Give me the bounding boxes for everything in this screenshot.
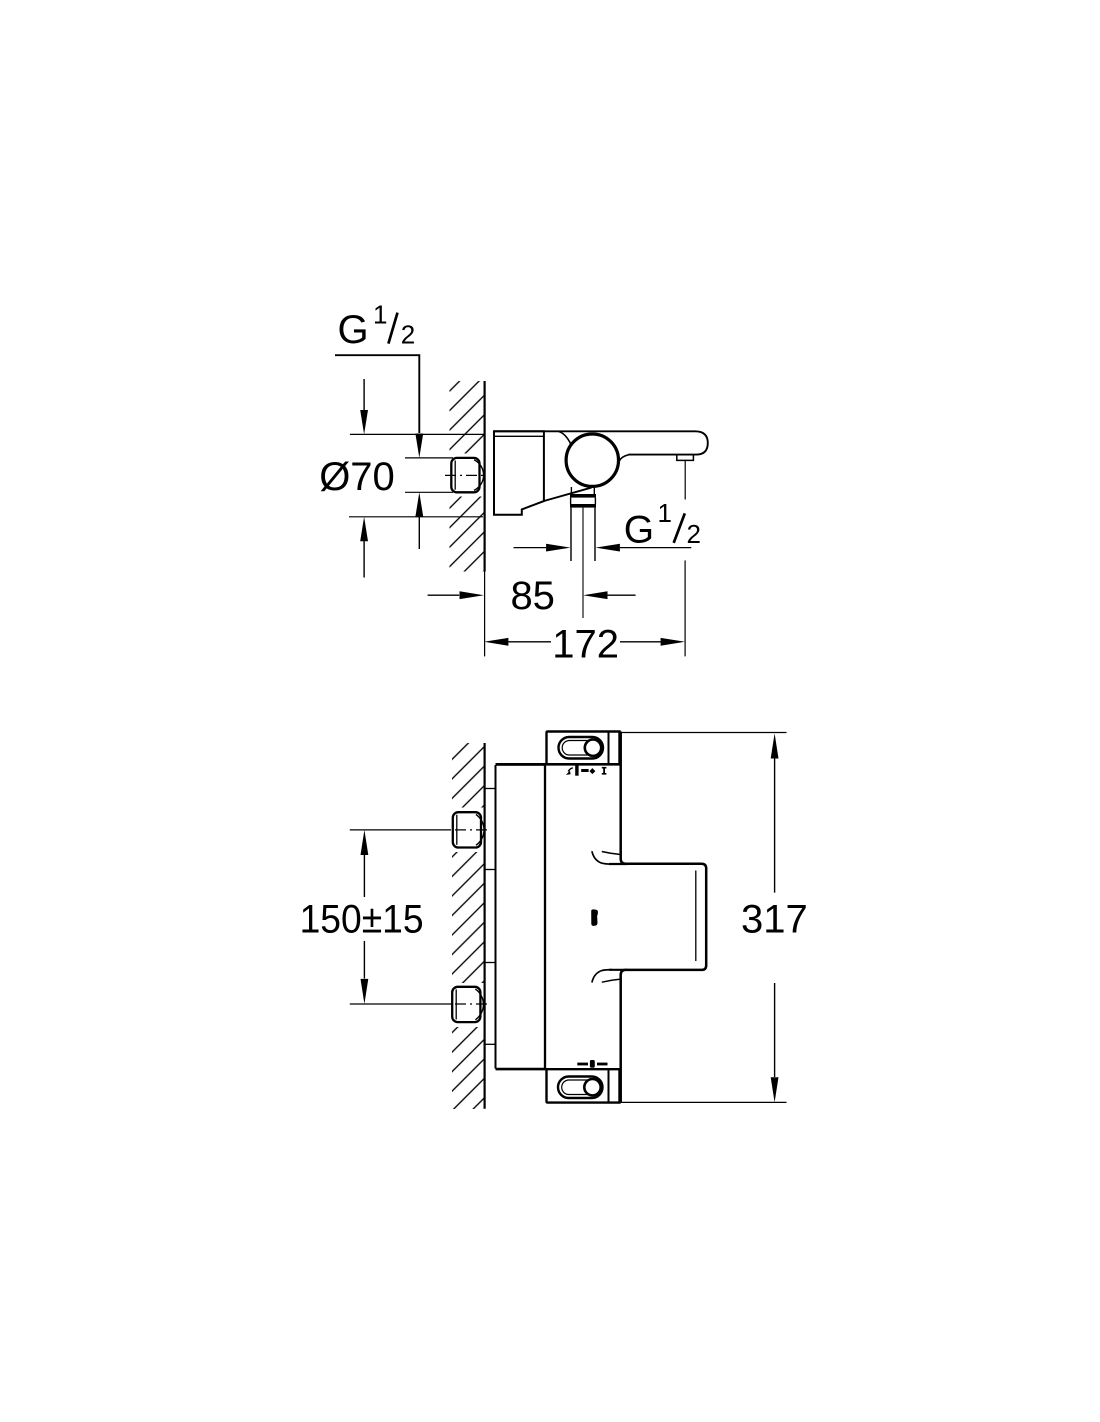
150+-15 dimension: [361, 830, 369, 855]
body right edge + handle outline: [621, 732, 707, 1103]
extent line union bottom: [405, 491, 453, 493]
svg-text:2: 2: [401, 320, 415, 350]
wall line (bottom drawing): [484, 743, 486, 1109]
union bottom arrow (up): [415, 492, 423, 516]
grip hook top: [592, 851, 612, 864]
label G1/2 (hose): [624, 498, 701, 552]
svg-text:150±15: 150±15: [300, 897, 424, 941]
GROHE logo blob: [591, 909, 598, 926]
hose nut bar lower: [570, 504, 596, 508]
hose connection neck: [570, 487, 572, 494]
back plate: [495, 765, 497, 1069]
spout outlet tab: [677, 455, 694, 461]
85 dimension: [428, 594, 460, 596]
svg-text:85: 85: [510, 574, 555, 618]
svg-text:1: 1: [373, 300, 387, 330]
wall hatching (top drawing): [450, 381, 485, 572]
body underside slant to circle: [544, 488, 592, 501]
bottom diverter pill: [558, 1077, 603, 1099]
G1/2 leader arrow (down to union top): [415, 434, 423, 458]
escutcheon (wall cone): [494, 431, 544, 515]
wall line (top drawing): [484, 381, 486, 572]
body slab left edge: [544, 764, 546, 1069]
svg-text:1: 1: [658, 498, 672, 528]
hatch pocket around union: [446, 454, 487, 497]
outlet leader line: [684, 461, 686, 500]
150+-15 extent lines: [350, 829, 451, 831]
hose G1/2 dimension arrows: [514, 547, 547, 549]
union centerline (dash-dot): [445, 474, 487, 476]
svg-text:G: G: [338, 308, 369, 352]
cap bottom line: [496, 763, 620, 766]
neck fillet right: [619, 455, 629, 462]
spacer ticks wall to plate: [485, 788, 496, 790]
handle inner line: [695, 871, 697, 962]
grip hook bottom: [592, 970, 612, 983]
317 dimension: [620, 732, 787, 734]
hose center / extension line: [582, 508, 584, 618]
svg-text:2: 2: [687, 519, 701, 549]
top cap: [547, 732, 620, 765]
svg-text:317: 317: [741, 898, 808, 942]
upper union nut: [453, 812, 484, 847]
label G1/2 (top): [338, 300, 416, 353]
bottom icon dashes: [577, 1060, 607, 1068]
G1/2 leader underline: [335, 355, 419, 433]
escutcheon inner rim line: [494, 435, 544, 437]
spout body top+right outline: [494, 431, 708, 454]
hatch pockets around unions: [447, 808, 486, 853]
svg-text:Ø70: Ø70: [319, 455, 395, 499]
cap top line: [496, 1068, 620, 1070]
O70 dimension arrows: [363, 379, 365, 411]
hose nut bar upper: [570, 494, 596, 498]
172 dimension: [484, 638, 508, 646]
extent line union top: [405, 457, 453, 459]
hose outer lines: [570, 508, 572, 561]
neck fillet left: [559, 432, 572, 445]
lower union nut: [452, 987, 483, 1022]
thermostat cartridge circle: [566, 434, 618, 486]
172 right extension line: [684, 560, 686, 656]
svg-text:172: 172: [552, 622, 619, 666]
handle top edge left stub: [609, 863, 627, 865]
wall extension line down to 172 dim: [484, 572, 486, 657]
wall union nut (square fitting, top drawing): [451, 458, 483, 492]
bottom cap: [547, 1070, 620, 1103]
svg-text:G: G: [624, 509, 654, 552]
hose nut middle band: [570, 498, 572, 504]
top diverter pill: [559, 737, 604, 759]
handle bottom edge left stub: [609, 969, 627, 971]
extent line top of escutcheon (O70 upper): [350, 433, 485, 435]
union centerlines dash-dot: [455, 829, 487, 831]
wall hatching (bottom drawing): [452, 743, 485, 1109]
extent line bottom of escutcheon (O70 lower): [349, 516, 483, 518]
icon row under top cap: [566, 765, 606, 775]
